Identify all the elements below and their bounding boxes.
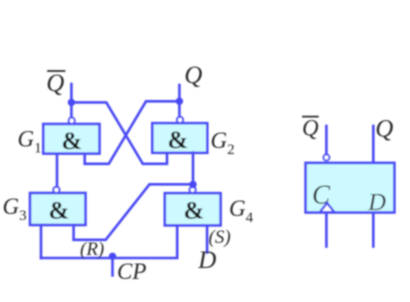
- junction dot at G4 output node: [189, 181, 196, 188]
- wire CP rail to G4 lower-left input: [41, 226, 177, 259]
- svg-text:D: D: [367, 189, 386, 216]
- gate G2 output bubble: [177, 117, 183, 123]
- svg-text:&: &: [184, 198, 205, 225]
- gate G1 output bubble: [69, 118, 75, 124]
- wire G3 output to G1 lower-left input: [56, 154, 59, 187]
- wire cross-couple B: Q node to G1 lower input: [85, 101, 180, 164]
- junction dot CP node: [109, 253, 116, 260]
- label Q-bar (block symbol): [302, 115, 319, 140]
- svg-text:D: D: [197, 247, 216, 274]
- gate G3 (NAND) body: [30, 193, 86, 225]
- wire Q pin of block: [372, 126, 375, 163]
- wire C pin bottom: [325, 213, 328, 247]
- svg-text:(S): (S): [209, 227, 231, 248]
- svg-text:CP: CP: [117, 259, 146, 284]
- gate G4 (NAND) body: [165, 193, 221, 225]
- wire Q-bar pin of block: [325, 126, 328, 155]
- svg-text:Q: Q: [184, 62, 202, 89]
- svg-text:G1: G1: [18, 127, 42, 157]
- wire CP stub: [111, 256, 114, 275]
- wire G2 lower input from G4 output (vertical): [192, 153, 195, 188]
- wire G3 lower-left input down to CP rail: [40, 225, 43, 258]
- junction dot on Q wire: [176, 98, 183, 105]
- svg-text:G4: G4: [229, 196, 254, 226]
- dynamic input chevron on C: [320, 203, 335, 212]
- svg-text:(R): (R): [80, 239, 104, 260]
- latch block body: [306, 163, 395, 213]
- svg-text:G3: G3: [3, 194, 27, 224]
- wire Q vertical from G2 output: [178, 85, 181, 118]
- wire G4 output node to G3 lower-right input: [74, 184, 193, 240]
- gate G2 (NAND) body: [152, 123, 207, 153]
- wire D pin bottom: [372, 213, 375, 247]
- gate G4 output bubble: [190, 187, 196, 193]
- svg-text:&: &: [62, 128, 83, 155]
- gate G3 output bubble: [53, 187, 59, 193]
- svg-text:Q: Q: [46, 70, 64, 97]
- node Q-bar label (left circuit): [46, 70, 64, 97]
- svg-text:&: &: [168, 127, 189, 154]
- gate G1 (NAND) body: [43, 124, 99, 154]
- junction dot on Q-bar wire: [68, 99, 75, 106]
- svg-text:G2: G2: [211, 128, 235, 158]
- svg-text:Q: Q: [302, 115, 319, 140]
- svg-text:&: &: [49, 198, 70, 225]
- wire D input to G4: [206, 226, 209, 253]
- wire Q-bar vertical from G1 output: [70, 84, 73, 118]
- bubble on Q-bar pin: [323, 155, 329, 161]
- wire cross-couple A: Q-bar node to G2 lower input: [71, 102, 167, 163]
- svg-text:Q: Q: [375, 116, 393, 143]
